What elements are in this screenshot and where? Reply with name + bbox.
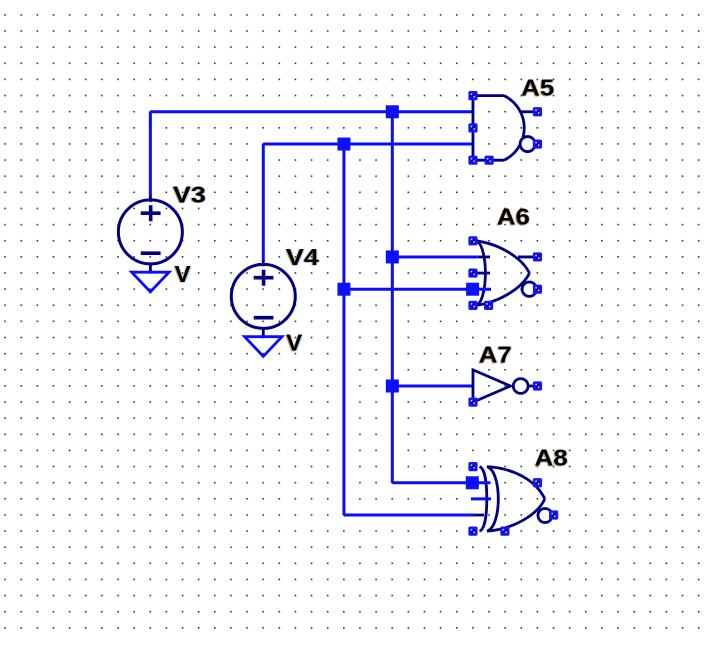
junction at A6 input 2 pin [466,283,479,296]
svg-text:V: V [286,329,303,355]
A8 pin squares [468,462,558,536]
svg-text:A6: A6 [497,204,530,230]
ground below V4 [245,337,282,357]
A8 input 1 wire stub over body [466,481,491,484]
label A7 [478,342,513,369]
wire: row17 horizontal junction to A6 input 2 [344,288,473,291]
junction node row17/col21 [337,283,350,296]
junction at A8 input 1 pin [466,476,479,489]
value label V of V4 [285,329,304,356]
A6 pin squares [468,236,542,310]
svg-text:A7: A7 [479,342,512,368]
junction node row23/col24 [386,379,399,392]
wire: V3 top to net row6 [149,112,152,197]
label A6 [496,204,531,231]
A7 pin squares [468,381,542,406]
voltage source V4 [231,260,295,337]
voltage source V3 [118,196,182,273]
junction node row8/col21 [337,138,350,151]
A6 input 2 wire stub over body [472,288,491,291]
inverter A7 body [473,370,535,402]
wire: row31 horizontal to A8 input 2 [344,514,484,517]
wire: row6 horizontal V3 to A5 input 1 [150,110,474,113]
A6 output bubble [522,282,536,296]
wire: row8 horizontal V4 to A5 input 2 [263,143,474,146]
junction node row6/col24 [386,105,399,118]
A8 output bubble [538,509,552,523]
junction node row15/col24 [386,250,399,263]
label V4 [285,244,320,271]
A5 pin squares [468,91,542,165]
label V3 [172,181,207,208]
label A5 [520,75,555,102]
A5 output bubble [520,137,535,152]
svg-text:V: V [175,261,192,287]
NAND gate A5 body [473,96,535,161]
svg-text:V4: V4 [286,244,319,270]
svg-text:A8: A8 [535,444,568,470]
wire: row29 horizontal to A8 input 1 [392,481,474,484]
value label V of V3 [174,261,193,288]
ground below V3 [132,272,169,292]
label A8 [534,444,569,471]
wire: row15 horizontal junction to A6 input 1 [392,255,477,258]
wire: V4 top to net row8 [262,144,265,261]
wire: column24 vertical row6 to row29 [391,112,394,483]
wire: column21 vertical row8 to row31 [342,144,345,515]
A8 middle input stub [471,497,491,500]
svg-text:V3: V3 [173,181,206,207]
wire: row23 horizontal junction to A7 input [392,384,473,387]
NOR gate A6 body [474,241,535,306]
A7 output bubble [513,379,528,394]
XNOR gate A8 body [480,467,545,532]
svg-text:A5: A5 [521,75,554,101]
